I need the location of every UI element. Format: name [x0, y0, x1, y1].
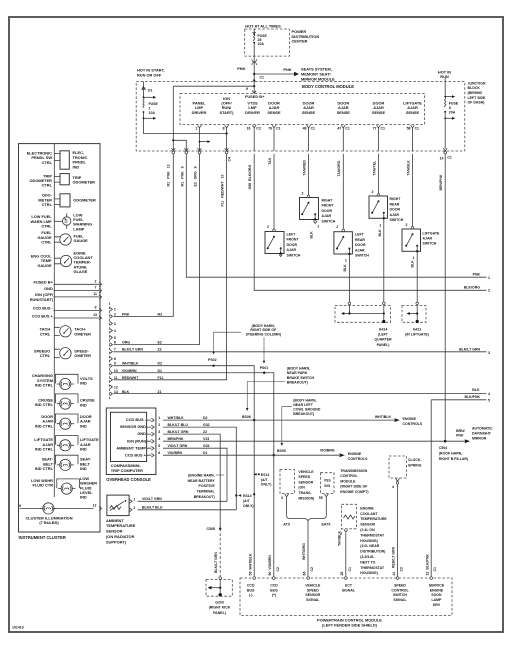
thermistor symbol	[110, 506, 122, 510]
svg-text:FUSED B+: FUSED B+	[33, 279, 53, 284]
wire RED/LT GRN down to PCM pin 41	[397, 484, 399, 578]
svg-text:(BEHIND: (BEHIND	[468, 91, 483, 95]
svg-text:M1 PNK 13: M1 PNK 13	[166, 164, 170, 186]
svg-text:6: 6	[158, 451, 160, 455]
svg-text:58: 58	[407, 126, 411, 130]
svg-text:QUARTER: QUARTER	[374, 338, 392, 342]
svg-text:C1: C1	[433, 567, 437, 572]
liftgate ajar indicator lamp	[57, 440, 74, 451]
svg-text:(-): (-)	[249, 593, 253, 597]
cluster illumination bulbs lamp	[40, 503, 57, 514]
svg-text:DRIVER: DRIVER	[192, 110, 207, 115]
svg-text:CCD BUS -: CCD BUS -	[33, 306, 54, 311]
svg-text:C1: C1	[276, 126, 281, 130]
svg-text:WHT/BLK: WHT/BLK	[168, 416, 185, 420]
svg-text:NEAR LEFT: NEAR LEFT	[293, 403, 314, 407]
powertrain control module box	[240, 578, 452, 616]
pin 5 stub	[110, 336, 113, 340]
svg-text:IND: IND	[80, 447, 87, 452]
svg-text:RIGHT: RIGHT	[390, 197, 402, 201]
svg-text:5: 5	[488, 399, 490, 403]
body control module dashed box	[180, 94, 425, 125]
svg-text:DRIVER: DRIVER	[245, 110, 260, 115]
svg-text:7: 7	[95, 286, 97, 290]
svg-text:OVERHEAD CONSOLE: OVERHEAD CONSOLE	[106, 477, 151, 482]
svg-text:E2 ORG 8: E2 ORG 8	[194, 166, 198, 186]
splice ES13 on WHT/BLK	[258, 473, 260, 475]
svg-text:F11 RED/WHT 10: F11 RED/WHT 10	[221, 175, 225, 207]
svg-text:(3.3/3.8L: (3.3/3.8L	[360, 555, 375, 559]
svg-text:ES13: ES13	[261, 473, 270, 477]
cruise indicator lamp	[57, 398, 74, 409]
svg-text:ORG: ORG	[122, 341, 130, 345]
svg-text:PNK: PNK	[473, 272, 481, 276]
svg-text:D1: D1	[158, 369, 163, 373]
svg-text:26: 26	[340, 572, 344, 576]
svg-text:VIO/BRN: VIO/BRN	[122, 369, 137, 373]
svg-text:(ON: (ON	[298, 486, 305, 490]
PCM pin 22 C1 SERVICE ENGINE SOON LAMP DRV	[430, 577, 433, 580]
svg-text:1: 1	[317, 225, 319, 229]
vehicle speed sensor box	[280, 470, 295, 494]
svg-text:BLK/LT GRN: BLK/LT GRN	[459, 348, 480, 352]
svg-text:ECT: ECT	[345, 584, 353, 588]
svg-text:BLK/ORG: BLK/ORG	[464, 286, 480, 290]
svg-text:79: 79	[268, 126, 272, 130]
svg-text:PS02: PS02	[208, 358, 217, 362]
svg-text:BS05: BS05	[277, 449, 286, 453]
svg-text:OMETER: OMETER	[74, 353, 91, 358]
engine coolant temperature gauge	[54, 258, 60, 264]
svg-text:SUPPORT): SUPPORT)	[106, 539, 127, 544]
TAN wires through JB bottom area	[274, 128, 413, 151]
svg-text:55: 55	[319, 496, 323, 500]
ground G411 connector box	[416, 302, 419, 305]
svg-text:MODULE: MODULE	[340, 479, 356, 483]
svg-text:SENSE: SENSE	[372, 110, 386, 115]
svg-text:ENGINE COMPT): ENGINE COMPT)	[340, 490, 368, 494]
svg-text:FUSED B+: FUSED B+	[245, 94, 265, 99]
pin 11 RED/WHT F11	[110, 378, 113, 382]
svg-text:C1: C1	[415, 126, 420, 130]
svg-text:SIG: SIG	[324, 484, 330, 488]
svg-text:RUN: RUN	[440, 74, 449, 79]
wire TAN/ORG pin47 to left rear door ajar switch	[342, 154, 344, 230]
svg-text:SWITCH: SWITCH	[287, 253, 301, 257]
svg-text:1: 1	[345, 259, 347, 263]
svg-text:PNK: PNK	[122, 312, 130, 316]
svg-text:22 BLK/PNK: 22 BLK/PNK	[426, 554, 430, 576]
clockspring pin 4	[396, 479, 400, 482]
svg-text:GAUGE: GAUGE	[74, 238, 89, 243]
svg-text:G203: G203	[215, 600, 224, 604]
svg-text:7: 7	[114, 348, 116, 352]
pin 8 stub	[110, 357, 113, 361]
svg-text:SENSE: SENSE	[302, 110, 316, 115]
svg-text:D2: D2	[203, 416, 208, 420]
svg-text:(3.0L NEAR: (3.0L NEAR	[360, 544, 379, 548]
svg-text:BUS: BUS	[247, 588, 255, 592]
pin 10 VIO/BRN D1	[110, 371, 113, 375]
fuse 28 10A	[252, 29, 256, 56]
svg-text:(ON RADIATOR: (ON RADIATOR	[106, 534, 135, 539]
svg-text:4: 4	[392, 485, 394, 489]
svg-text:BLK/LT GRN: BLK/LT GRN	[122, 348, 143, 352]
leader to splice PS02	[214, 332, 241, 351]
VSS pin 3	[285, 494, 289, 497]
svg-text:BLK/LT GRN: BLK/LT GRN	[168, 430, 189, 434]
svg-text:CTRL: CTRL	[42, 160, 53, 165]
svg-text:10: 10	[114, 369, 118, 373]
svg-text:BRN/PNK: BRN/PNK	[439, 174, 443, 190]
svg-text:6: 6	[114, 341, 116, 345]
svg-text:FRONT: FRONT	[322, 204, 335, 208]
svg-text:C1: C1	[447, 156, 452, 160]
svg-text:PS01: PS01	[260, 366, 269, 370]
svg-text:E2: E2	[158, 341, 162, 345]
svg-text:FUSE: FUSE	[149, 102, 159, 106]
svg-text:LAMP: LAMP	[431, 598, 442, 602]
svg-text:(A/T: (A/T	[243, 499, 251, 503]
svg-text:9: 9	[95, 306, 97, 310]
svg-text:SENSOR: SENSOR	[360, 523, 375, 527]
svg-text:48: 48	[303, 126, 307, 130]
wire BLK Z1 cluster pin13 row to right edge pin 4	[114, 393, 487, 395]
leader from engine harn label	[216, 474, 224, 476]
svg-text:BLK/LT BLU: BLK/LT BLU	[168, 423, 189, 427]
svg-text:RUN/START): RUN/START)	[30, 297, 54, 302]
svg-text:14: 14	[440, 157, 444, 161]
svg-text:D1: D1	[148, 88, 153, 92]
svg-text:IND: IND	[80, 381, 87, 386]
svg-text:(ROOF HARN,: (ROOF HARN,	[439, 451, 462, 455]
fuse 8 20A in junction block	[444, 78, 446, 149]
svg-text:ODOMETER: ODOMETER	[73, 198, 96, 203]
branch of PNK to JB pin 9 output	[172, 139, 174, 141]
svg-text:C1: C1	[345, 126, 350, 130]
svg-text:DAY/NIGHT: DAY/NIGHT	[472, 432, 492, 436]
svg-text:1: 1	[488, 276, 490, 280]
svg-text:ENGINE: ENGINE	[430, 588, 444, 592]
svg-text:9: 9	[114, 362, 116, 366]
svg-text:VEHICLE: VEHICLE	[298, 470, 314, 474]
svg-text:V23: V23	[203, 437, 209, 441]
svg-text:SIGNAL: SIGNAL	[306, 598, 320, 602]
wire PNK M1 pin13 down to cluster connector pin 2	[114, 154, 174, 317]
wire WHT/BLK D2 row down the middle	[114, 366, 255, 578]
svg-text:IND CTRL: IND CTRL	[35, 447, 54, 452]
svg-text:(7 BULBS): (7 BULBS)	[39, 520, 59, 525]
svg-text:COOLANT: COOLANT	[360, 512, 378, 516]
wire PNK arrow to seats system	[254, 73, 294, 75]
wire TAN pin79 to left front door ajar switch	[273, 154, 275, 229]
svg-text:ODOMETER: ODOMETER	[73, 180, 96, 185]
svg-text:60 VIO/BRN: 60 VIO/BRN	[268, 555, 272, 576]
svg-text:66: 66	[303, 572, 307, 576]
svg-text:(2.4L ON: (2.4L ON	[360, 528, 375, 532]
svg-text:101413: 101413	[12, 626, 24, 630]
svg-text:IND: IND	[73, 164, 80, 169]
svg-text:TAN/RED: TAN/RED	[302, 160, 306, 176]
svg-text:CTRL: CTRL	[42, 202, 53, 207]
svg-text:BODY CONTROL MODULE: BODY CONTROL MODULE	[302, 84, 354, 89]
svg-text:FRONT: FRONT	[287, 238, 300, 242]
PCM pin 66 C2 VEHICLE SPEED SENSOR SIGNAL	[307, 577, 310, 580]
svg-text:AMBIENT: AMBIENT	[106, 518, 124, 523]
ground G203 box	[219, 577, 222, 580]
svg-text:1: 1	[413, 256, 415, 260]
svg-text:ONLY): ONLY)	[261, 483, 272, 487]
svg-text:TAN/YEL: TAN/YEL	[372, 160, 376, 176]
wire VIO/BRN to engine controls arrow	[274, 454, 339, 456]
svg-text:AUTOMATIC: AUTOMATIC	[472, 427, 493, 431]
wire RED/WHT F11 pin10 down to cluster connector pin 11	[114, 154, 227, 380]
svg-text:RIGHT B PILLAR): RIGHT B PILLAR)	[439, 457, 468, 461]
svg-text:SENSE: SENSE	[337, 110, 351, 115]
svg-text:(+): (+)	[272, 593, 276, 597]
svg-text:SWITCH: SWITCH	[390, 218, 404, 222]
svg-text:SENSE: SENSE	[406, 110, 420, 115]
compass/mini-trip computer box	[111, 412, 147, 461]
svg-text:BLK: BLK	[343, 264, 347, 272]
overhead console box	[106, 408, 156, 475]
svg-text:3: 3	[281, 496, 283, 500]
svg-text:RIGHT: RIGHT	[322, 199, 334, 203]
svg-text:D1: D1	[203, 451, 208, 455]
svg-text:GAUGE: GAUGE	[37, 263, 52, 268]
svg-text:CCD: CCD	[270, 584, 278, 588]
svg-text:CCD BUS +: CCD BUS +	[125, 452, 147, 457]
svg-text:C2: C2	[400, 567, 404, 572]
svg-text:(BODY HARN,: (BODY HARN,	[293, 398, 316, 402]
svg-text:HOUSING): HOUSING)	[360, 539, 378, 543]
svg-text:TAN/ORG: TAN/ORG	[337, 160, 341, 176]
svg-text:MIRROR: MIRROR	[472, 437, 487, 441]
wire PNK from fuse 28 down to BCM pin 9	[253, 56, 255, 80]
pin 1 stub	[110, 307, 113, 311]
svg-text:BLK/LT GRN: BLK/LT GRN	[214, 552, 218, 573]
wire pin16 BLK/ORG inside JB	[253, 128, 255, 151]
svg-text:BRN/PNK: BRN/PNK	[168, 437, 184, 441]
svg-text:Z2: Z2	[203, 430, 207, 434]
svg-text:(LEFT: (LEFT	[378, 333, 389, 337]
svg-text:CCD BUS -: CCD BUS -	[126, 417, 147, 422]
svg-text:VEHICLE: VEHICLE	[305, 584, 321, 588]
svg-text:4: 4	[488, 392, 490, 396]
instrument cluster box	[19, 144, 101, 532]
svg-text:TEMPERATURE: TEMPERATURE	[106, 523, 136, 528]
svg-text:IND: IND	[80, 402, 87, 407]
svg-text:MIRROR MODULE: MIRROR MODULE	[301, 77, 335, 82]
svg-text:OF DASH): OF DASH)	[468, 101, 485, 105]
svg-text:2: 2	[302, 191, 304, 195]
svg-text:C2: C2	[310, 567, 314, 572]
wire BLK from S4 to ground G414	[383, 218, 385, 302]
svg-text:SENSOR: SENSOR	[305, 593, 320, 597]
junction block dashed box	[136, 82, 465, 152]
svg-text:SOON: SOON	[431, 593, 442, 597]
wire BLK/PNK from clockspring riser to right edge pin 5	[431, 399, 486, 401]
svg-text:11: 11	[93, 292, 97, 296]
pin 13 BLK Z1	[110, 392, 113, 396]
volts indicator lamp	[57, 378, 74, 389]
svg-text:BLK: BLK	[411, 260, 415, 268]
svg-text:IND CTRL: IND CTRL	[35, 383, 54, 388]
wire BRN/PNK arrow to automatic day/night mirror	[445, 440, 464, 442]
PCM pin 60 C2 CCD BUS (+)	[273, 577, 276, 580]
svg-text:ENGINE: ENGINE	[403, 417, 417, 421]
wire WHT/BLK to engine controls arrow	[254, 419, 394, 421]
svg-text:BREAKOUT): BREAKOUT)	[287, 380, 308, 384]
svg-text:FLUID CTR: FLUID CTR	[32, 483, 53, 488]
svg-text:WHT/BLK: WHT/BLK	[122, 362, 139, 366]
svg-text:FUSE: FUSE	[449, 101, 459, 105]
node splice on PNK feed at JB edge	[253, 79, 255, 81]
svg-text:1: 1	[133, 498, 135, 502]
svg-text:1: 1	[114, 308, 116, 312]
svg-text:LEFT SIDE: LEFT SIDE	[468, 96, 487, 100]
svg-text:BLK: BLK	[378, 229, 382, 237]
svg-text:AJAR: AJAR	[423, 237, 433, 241]
svg-text:EATX: EATX	[322, 522, 332, 526]
svg-text:PNK: PNK	[283, 67, 291, 72]
svg-text:SWITCH: SWITCH	[423, 242, 437, 246]
svg-text:41: 41	[392, 572, 396, 576]
svg-text:BREAKOUT): BREAKOUT)	[194, 495, 215, 499]
svg-text:SIGNAL: SIGNAL	[393, 598, 407, 602]
svg-text:NEXT TO: NEXT TO	[360, 560, 375, 564]
svg-text:LEFT: LEFT	[355, 233, 365, 237]
svg-text:ENGINE: ENGINE	[348, 452, 362, 456]
svg-text:SWITCH: SWITCH	[322, 219, 336, 223]
svg-text:AJAR: AJAR	[287, 248, 297, 252]
svg-text:F11: F11	[158, 376, 164, 380]
ambient temperature sensor box	[107, 495, 129, 515]
svg-text:SPEED: SPEED	[298, 475, 310, 479]
wire VIO/BRN D1 row down the middle	[114, 373, 274, 578]
svg-text:AJAR: AJAR	[355, 248, 365, 252]
pin 2 PNK M1	[110, 315, 113, 319]
svg-text:ES14: ES14	[243, 494, 252, 498]
svg-text:G58 BLK/ORG: G58 BLK/ORG	[248, 165, 252, 190]
JB pin 13 exit	[171, 148, 175, 151]
svg-text:VIO/BRN: VIO/BRN	[168, 451, 183, 455]
cluster connector C1 face	[109, 303, 111, 400]
svg-text:GLAGE: GLAGE	[74, 269, 88, 274]
door ajar indicator lamp	[57, 418, 74, 429]
svg-text:2: 2	[114, 312, 116, 316]
ground G414 connector box	[348, 302, 351, 305]
svg-text:IND CTRL: IND CTRL	[35, 402, 54, 407]
svg-text:C1: C1	[381, 126, 386, 130]
svg-text:IND: IND	[80, 423, 87, 428]
svg-text:DOOR: DOOR	[322, 209, 333, 213]
svg-text:CONTROL: CONTROL	[340, 474, 358, 478]
clockspring box	[389, 456, 407, 478]
wire BLK/LT GRN from C508 down to G203	[219, 529, 221, 577]
svg-text:CTRL: CTRL	[41, 240, 52, 245]
svg-text:NEAR PARK: NEAR PARK	[287, 371, 308, 375]
svg-text:5: 5	[158, 444, 160, 448]
svg-text:2: 2	[488, 288, 490, 292]
PCM pin 58 CCD BUS (-)	[253, 577, 256, 580]
svg-text:SERVICE: SERVICE	[429, 584, 445, 588]
wire PNK M1 pin9 down to right edge pin 1	[186, 154, 486, 277]
svg-text:ATX: ATX	[283, 522, 290, 526]
svg-text:CTRL: CTRL	[40, 353, 51, 358]
pin 4 stub	[110, 329, 113, 333]
svg-text:RED/LT GRN: RED/LT GRN	[391, 546, 395, 568]
svg-text:CONTROLS: CONTROLS	[403, 422, 423, 426]
svg-text:(LEFT FENDER SIDE SHIELD): (LEFT FENDER SIDE SHIELD)	[322, 623, 378, 628]
power distribution center box	[245, 29, 290, 56]
leader to splice BS06	[247, 382, 285, 409]
svg-text:IND: IND	[80, 466, 87, 471]
svg-text:VSS: VSS	[324, 479, 332, 483]
svg-text:13: 13	[93, 313, 97, 317]
svg-text:4: 4	[158, 437, 160, 441]
svg-text:DOOR: DOOR	[287, 243, 298, 247]
svg-text:10A: 10A	[149, 111, 156, 115]
svg-text:1: 1	[379, 224, 381, 228]
svg-text:SENSOR: SENSOR	[106, 529, 123, 534]
svg-text:SENSE: SENSE	[267, 110, 281, 115]
svg-text:11: 11	[114, 376, 118, 380]
low washer fluid level indicator lamp	[58, 483, 75, 494]
svg-text:CENTER: CENTER	[292, 39, 308, 44]
svg-text:AMBIENT TEMP: AMBIENT TEMP	[116, 445, 146, 450]
wire WHT/ORG from bracket to PCM pin 66	[307, 521, 309, 578]
svg-text:G411: G411	[413, 327, 421, 331]
svg-text:CTRL: CTRL	[40, 331, 51, 336]
svg-text:BLK/LT BLU: BLK/LT BLU	[142, 506, 163, 510]
svg-text:GND: GND	[44, 286, 53, 291]
leader to splice BS05	[282, 407, 292, 443]
svg-text:CTRL: CTRL	[41, 224, 52, 229]
svg-text:PANEL): PANEL)	[213, 611, 226, 615]
pin 12 stub	[110, 385, 113, 389]
electronic prndl indicator	[54, 154, 60, 161]
svg-text:CCD BUS +: CCD BUS +	[32, 313, 54, 318]
svg-text:WHT/ORG: WHT/ORG	[302, 543, 306, 560]
seat belt indicator lamp	[57, 459, 74, 470]
svg-text:9: 9	[246, 87, 248, 91]
svg-text:CONTROLS: CONTROLS	[348, 457, 368, 461]
wire TAN/RED pin48 to right front door ajar switch	[308, 154, 310, 195]
svg-text:NEAR BATTERY: NEAR BATTERY	[188, 479, 216, 483]
fuel gauge	[54, 237, 60, 242]
svg-text:SPEED: SPEED	[307, 588, 319, 592]
wire BLK from S3 to ground G414	[348, 254, 350, 302]
svg-text:12: 12	[93, 504, 97, 508]
svg-text:LAMP: LAMP	[73, 226, 84, 231]
svg-text:LIFTGATE: LIFTGATE	[423, 231, 441, 235]
svg-text:THERMOSTAT: THERMOSTAT	[360, 566, 385, 570]
wire ORG E2 pin8 down to cluster connector pin 6	[114, 154, 200, 345]
JB pin 9 exit	[184, 148, 188, 151]
svg-text:MISSION): MISSION)	[298, 496, 314, 500]
svg-text:12: 12	[114, 385, 118, 389]
sensor pin 1 VIO/LT GRN	[129, 499, 132, 503]
svg-text:DOOR: DOOR	[390, 208, 401, 212]
svg-text:VIO/LT GRN: VIO/LT GRN	[142, 497, 162, 501]
svg-text:(A/T: (A/T	[261, 478, 269, 482]
svg-text:TAN/BLK: TAN/BLK	[337, 530, 341, 546]
wire BLK/ORG G58 pin16 down then right to edge pin 2	[254, 154, 486, 290]
svg-text:16: 16	[247, 126, 251, 130]
wire BLK/LT GRN cluster pin7 row to right edge pin 3	[114, 351, 487, 353]
svg-text:ENGINE: ENGINE	[360, 506, 374, 510]
